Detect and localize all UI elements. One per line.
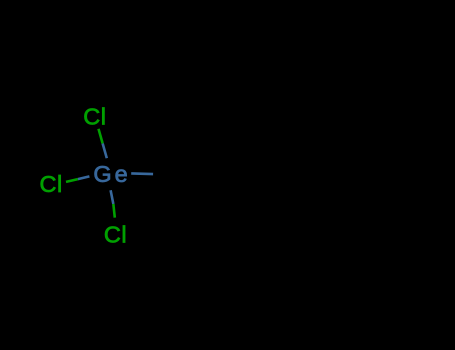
bond Ge-C1, Ge-colored half <box>131 172 153 175</box>
svg-text:Cl: Cl <box>40 171 63 197</box>
bond Ge-Cl(left), Cl-colored half <box>66 179 78 182</box>
svg-text:Cl: Cl <box>83 103 106 129</box>
svg-text:e: e <box>115 161 129 187</box>
svg-text:G: G <box>93 161 112 187</box>
bond Ge-Cl(bottom), Cl-colored half <box>113 204 114 218</box>
bond Ge-Cl(bottom), Ge-colored half <box>111 190 114 204</box>
carbon skeleton: phenyl ring (black on black, invisible as in target) <box>287 132 398 244</box>
svg-text:Cl: Cl <box>104 222 127 248</box>
bond Ge-C1, carbon-colored half (black on black, invisible as in target) <box>153 173 175 176</box>
bond Ge-Cl(top), Ge-colored half <box>103 144 107 159</box>
carbon skeleton: bicyclic cage ring (black on black, invisible as in target) <box>175 100 287 226</box>
bond Ge-Cl(top), Cl-colored half <box>99 129 103 144</box>
bond Ge-Cl(left), Ge-colored half <box>78 176 90 179</box>
